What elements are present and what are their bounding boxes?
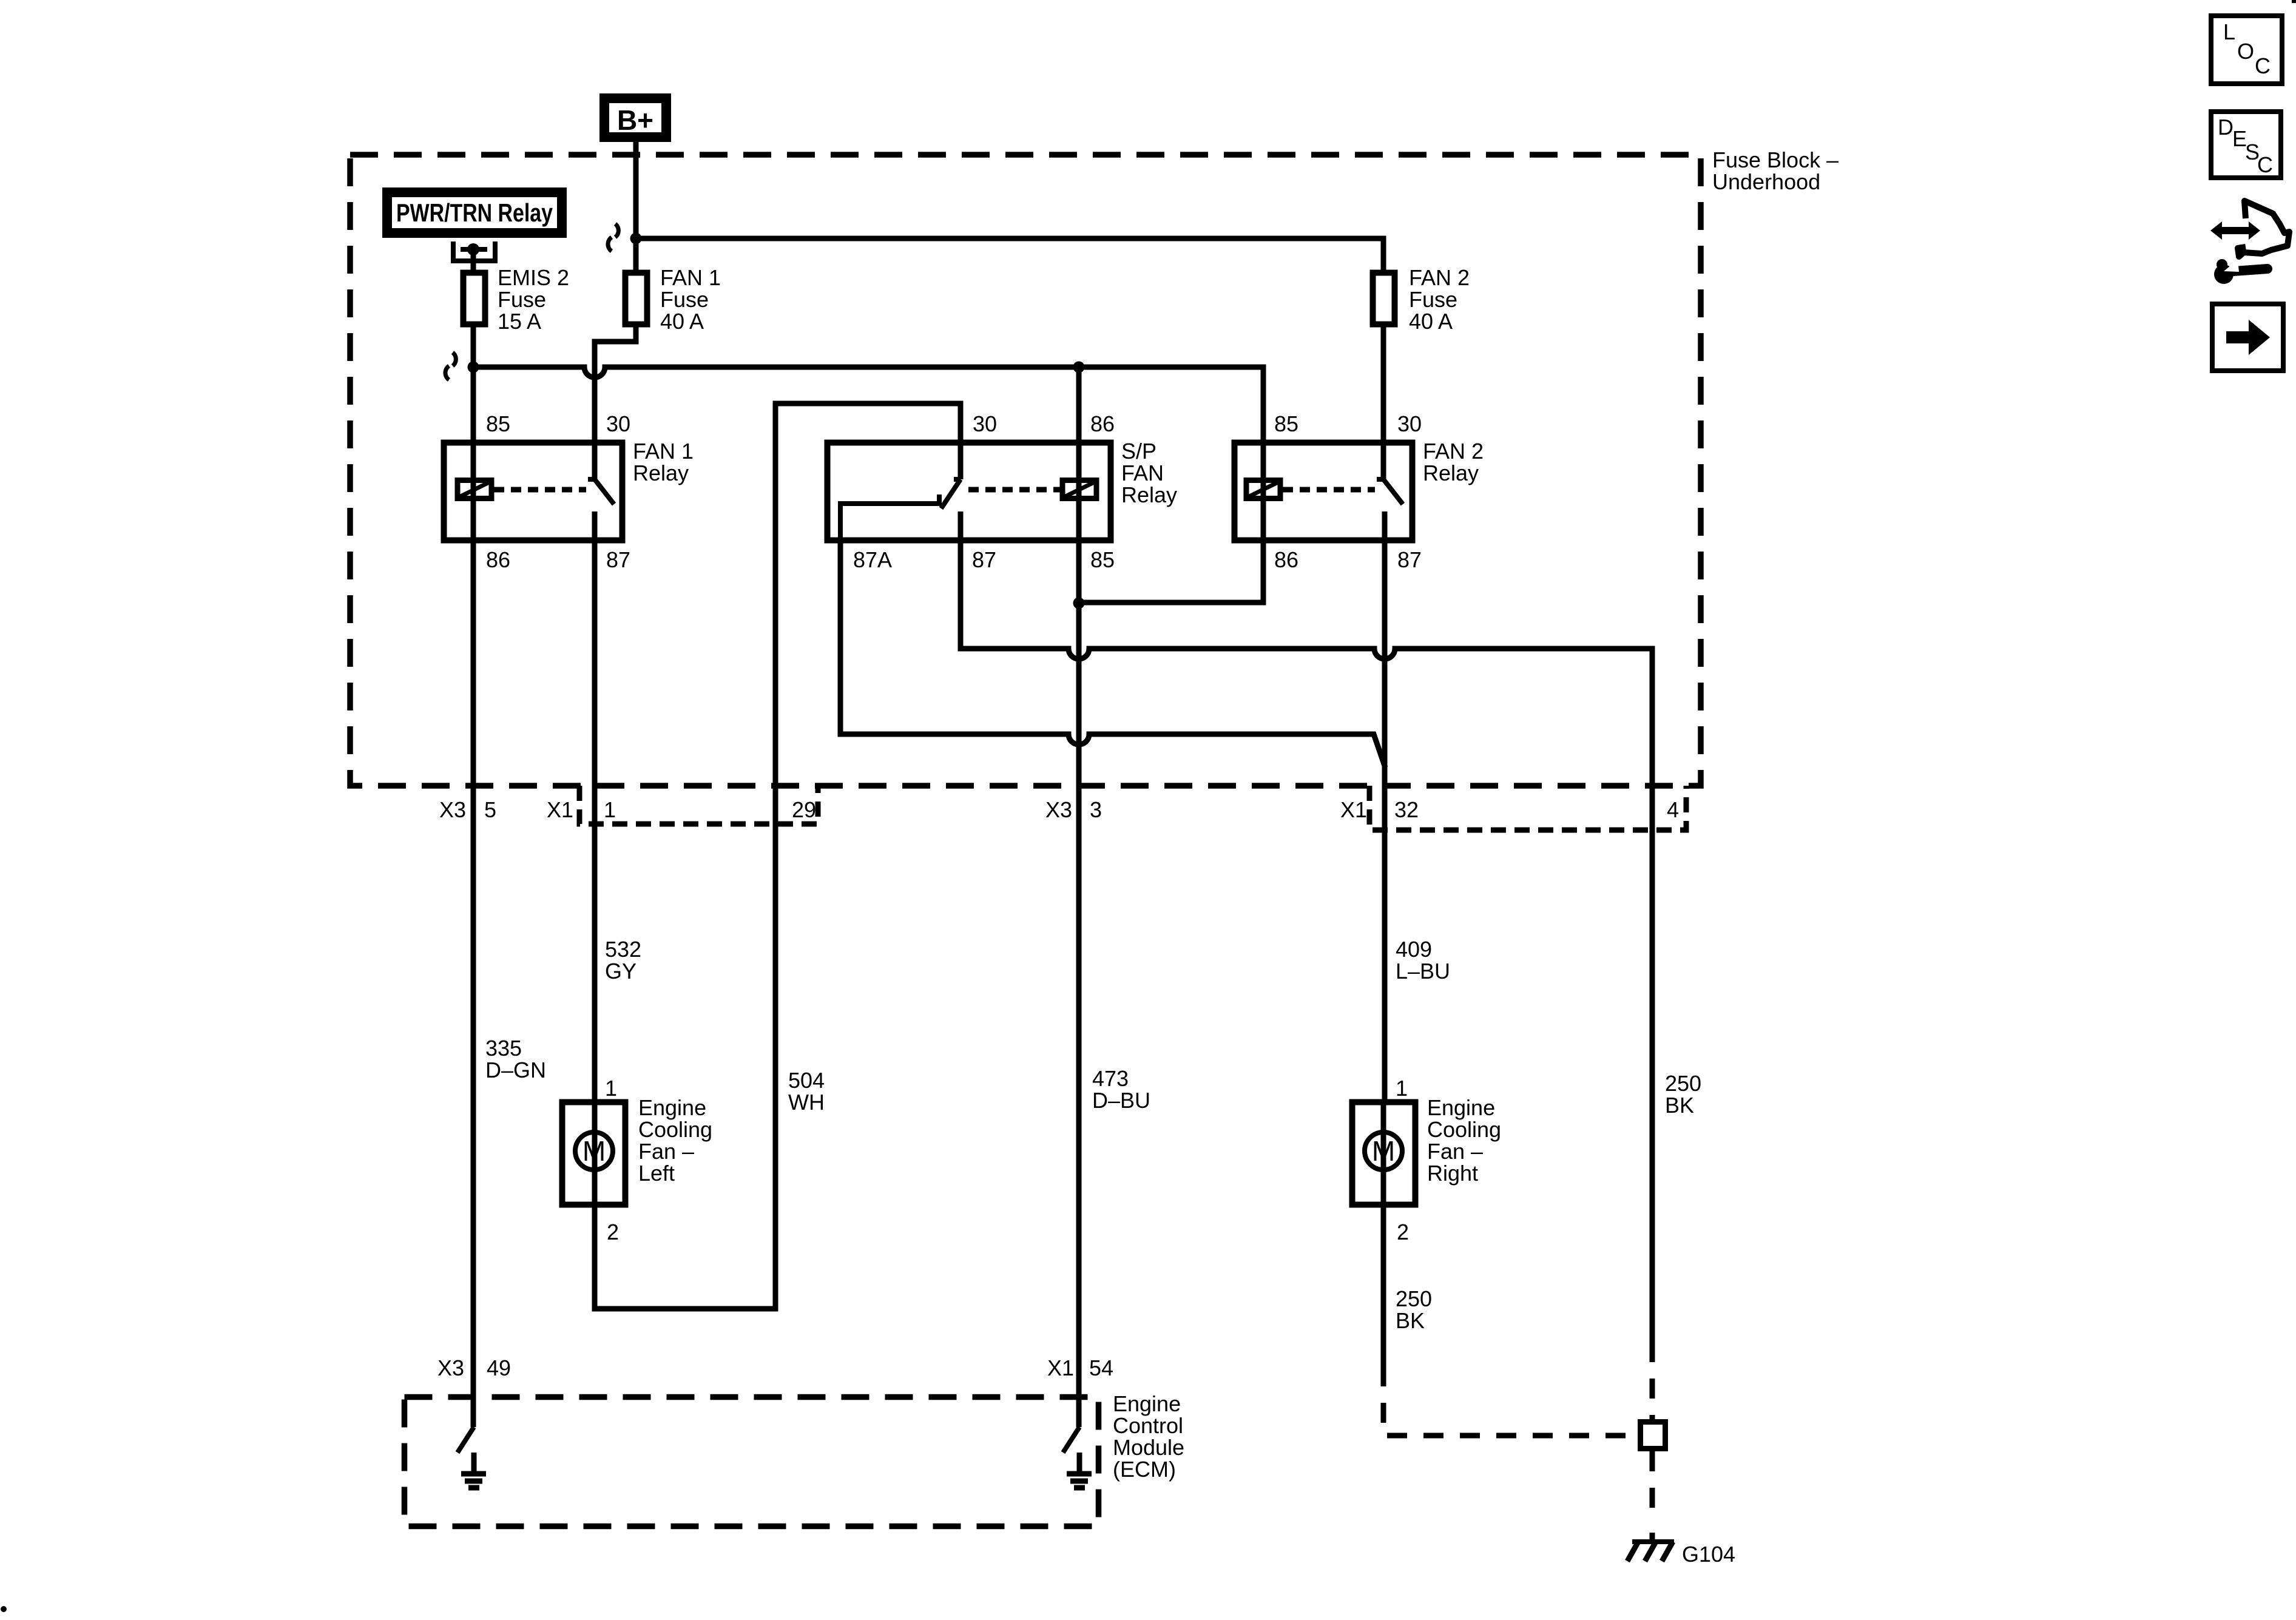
- ground G104 symbol: [1627, 1542, 1674, 1561]
- svg-text:532: 532: [605, 937, 641, 962]
- svg-text:FAN 2: FAN 2: [1409, 265, 1470, 290]
- connector repair icon housing outline: [2238, 201, 2289, 257]
- S/P FAN relay coil-switch link: [968, 487, 1060, 493]
- splice symbol at relay supply bus: [445, 353, 456, 380]
- ECM internal switch blade (X1-54): [1063, 1427, 1079, 1453]
- page artifact dot: [1, 1606, 7, 1612]
- svg-text:85: 85: [1274, 411, 1298, 436]
- svg-text:409: 409: [1396, 937, 1432, 962]
- svg-text:1: 1: [1396, 1076, 1408, 1101]
- svg-text:X1: X1: [547, 797, 573, 822]
- svg-text:30: 30: [973, 411, 997, 436]
- DESC navigation icon: [2211, 112, 2281, 178]
- junction dot B+ bus: [630, 233, 642, 245]
- ECM dashed border (Engine Control Module): [405, 1397, 1099, 1527]
- junction dot S/P FAN relay pin 85: [1073, 598, 1085, 609]
- wire X1-4 250 BK dashed continuation: [1650, 1342, 1655, 1422]
- svg-text:L–BU: L–BU: [1396, 959, 1450, 984]
- left fan motor internal wire: [592, 1099, 598, 1207]
- svg-text:86: 86: [1274, 547, 1298, 572]
- svg-text:B+: B+: [617, 104, 653, 136]
- relay S/P FAN box: [828, 443, 1111, 541]
- wire PWR/TRN terminal to EMIS 2 fuse: [471, 249, 476, 272]
- svg-text:87: 87: [1397, 547, 1422, 572]
- svg-text:2: 2: [607, 1220, 619, 1244]
- svg-text:Left: Left: [638, 1161, 675, 1186]
- connector repair icon wrench: [2214, 259, 2267, 284]
- svg-text:FAN 1: FAN 1: [660, 265, 721, 290]
- junction dot EMIS 2 fuse to bus: [468, 362, 479, 373]
- svg-text:L: L: [2223, 19, 2235, 44]
- svg-text:Relay: Relay: [633, 461, 689, 485]
- svg-text:Right: Right: [1427, 1161, 1478, 1186]
- fuse FAN 1 40 A: [626, 273, 647, 325]
- fuse FAN 2 40 A: [1373, 273, 1395, 325]
- svg-text:30: 30: [606, 411, 630, 436]
- svg-text:Engine: Engine: [638, 1095, 706, 1120]
- svg-text:X1: X1: [1340, 797, 1367, 822]
- svg-text:Fan –: Fan –: [1427, 1139, 1483, 1164]
- svg-text:O: O: [2237, 39, 2254, 64]
- wire right fan motor pin 2 (circuit 250 BK) solid part: [1381, 1207, 1386, 1366]
- svg-text:X1: X1: [1047, 1355, 1074, 1380]
- relay FAN 2 box: [1235, 443, 1413, 541]
- fuse EMIS 2 15 A: [464, 273, 485, 325]
- wire FAN 2 relay pin 85 coil feed: [1261, 443, 1266, 540]
- svg-text:40 A: 40 A: [1409, 309, 1453, 334]
- svg-text:335: 335: [485, 1036, 522, 1061]
- svg-text:Fan –: Fan –: [638, 1139, 694, 1164]
- svg-text:BK: BK: [1665, 1093, 1694, 1118]
- svg-text:32: 32: [1394, 797, 1419, 822]
- right fan motor internal wire: [1381, 1099, 1386, 1207]
- svg-text:5: 5: [484, 797, 496, 822]
- svg-text:86: 86: [486, 547, 510, 572]
- svg-text:FAN 1: FAN 1: [633, 439, 694, 464]
- svg-text:BK: BK: [1396, 1308, 1425, 1333]
- S/P FAN relay coil: [1062, 481, 1096, 499]
- svg-text:1: 1: [605, 1076, 617, 1101]
- svg-text:Relay: Relay: [1423, 461, 1479, 485]
- svg-text:S/P: S/P: [1121, 439, 1156, 464]
- svg-text:2: 2: [1397, 1220, 1409, 1244]
- S/P FAN relay 87A contact arm: [840, 494, 939, 540]
- svg-text:Fuse Block –: Fuse Block –: [1712, 147, 1838, 172]
- svg-text:30: 30: [1397, 411, 1422, 436]
- PWR/TRN Relay label box: [387, 192, 562, 233]
- svg-text:87A: 87A: [853, 547, 892, 572]
- svg-text:G104: G104: [1682, 1542, 1735, 1567]
- svg-text:X3: X3: [437, 1355, 464, 1380]
- wire FAN 2 relay pin 87 to right fan motor pin 1 (circuit 409 L-BU): [1382, 511, 1388, 1099]
- svg-text:87: 87: [972, 547, 996, 572]
- svg-text:WH: WH: [788, 1090, 825, 1115]
- svg-text:504: 504: [788, 1068, 825, 1093]
- wire S/P FAN relay pin 85 to FAN 2 relay pin 86: [1079, 540, 1263, 602]
- svg-text:Relay: Relay: [1121, 482, 1177, 507]
- junction dot PWR/TRN terminal: [467, 243, 479, 255]
- svg-text:Cooling: Cooling: [1427, 1117, 1501, 1142]
- wire right fan motor 250 BK dashed continuation: [1383, 1366, 1638, 1436]
- relay FAN 1 box: [444, 443, 623, 541]
- PWR/TRN relay output terminal bracket: [453, 241, 495, 261]
- S/P FAN relay switch contact tick: [954, 477, 961, 482]
- svg-text:D–BU: D–BU: [1092, 1088, 1150, 1113]
- svg-text:250: 250: [1396, 1286, 1432, 1311]
- svg-text:Control: Control: [1113, 1413, 1183, 1438]
- svg-text:Engine: Engine: [1427, 1095, 1495, 1120]
- FAN 1 relay coil: [458, 481, 491, 499]
- svg-text:D: D: [2218, 115, 2234, 140]
- connector repair icon double arrow: [2210, 221, 2260, 240]
- wire S/P FAN relay pin 30 to X1-29 and left fan motor pin 2 (circuit 504 WH): [595, 403, 961, 1309]
- svg-text:4: 4: [1667, 797, 1679, 822]
- fuse block dashed border (Fuse Block - Underhood): [350, 155, 1701, 786]
- svg-text:FAN: FAN: [1121, 461, 1164, 485]
- svg-text:87: 87: [606, 547, 630, 572]
- FAN 1 relay switch blade: [595, 479, 614, 504]
- junction dot S/P FAN relay coil feed: [1073, 362, 1085, 373]
- wire B+ feed bus to FAN 2 fuse: [636, 238, 1383, 272]
- svg-text:C: C: [2255, 53, 2271, 78]
- wire FAN 2 fuse to FAN 2 relay pin 30: [1381, 327, 1386, 479]
- svg-text:54: 54: [1089, 1355, 1113, 1380]
- connector X1 pins 1 / 29 dashed box: [579, 786, 818, 824]
- svg-text:Fuse: Fuse: [1409, 287, 1457, 312]
- in-line connector to ground: [1641, 1422, 1666, 1449]
- svg-text:Underhood: Underhood: [1712, 169, 1820, 194]
- svg-text:FAN 2: FAN 2: [1423, 439, 1484, 464]
- svg-text:29: 29: [792, 797, 816, 822]
- svg-text:EMIS 2: EMIS 2: [498, 265, 569, 290]
- svg-text:(ECM): (ECM): [1113, 1457, 1176, 1482]
- svg-text:Cooling: Cooling: [638, 1117, 712, 1142]
- wire S/P FAN relay pin 87A to right fan feed: [840, 540, 1385, 768]
- wire S/P FAN relay pins 86-85 to ECM (circuit 473 D-BU): [1076, 367, 1082, 1427]
- page artifact corner nib: [2292, 0, 2296, 3]
- svg-text:Fuse: Fuse: [498, 287, 546, 312]
- ECM internal ground (X3-49): [461, 1453, 486, 1488]
- svg-text:Fuse: Fuse: [660, 287, 709, 312]
- forward navigation arrow icon: [2212, 304, 2283, 371]
- svg-text:GY: GY: [605, 959, 636, 984]
- svg-text:85: 85: [1090, 547, 1115, 572]
- left fan motor (Engine Cooling Fan - Left): [562, 1102, 626, 1205]
- FAN 1 relay switch contact tick: [588, 477, 595, 482]
- wire FAN 1 fuse to FAN 1 relay pin 30: [595, 327, 636, 479]
- power feed B+ terminal: [604, 98, 666, 137]
- svg-text:473: 473: [1092, 1066, 1129, 1091]
- connector X1 pins 32 / 4 dashed box: [1369, 786, 1686, 830]
- ECM internal switch blade (X3-49): [458, 1427, 474, 1453]
- FAN 1 relay coil-switch link: [494, 487, 586, 493]
- FAN 2 relay switch blade: [1383, 479, 1403, 504]
- svg-text:86: 86: [1090, 411, 1115, 436]
- svg-text:3: 3: [1090, 797, 1102, 822]
- svg-text:Engine: Engine: [1113, 1391, 1181, 1416]
- wire B+ to FAN 1 fuse: [633, 142, 639, 272]
- svg-text:15 A: 15 A: [498, 309, 541, 334]
- LOC navigation icon: [2211, 16, 2282, 84]
- wire S/P FAN relay pin 87 to ground bus (circuit 250 BK): [961, 511, 1652, 1342]
- svg-text:C: C: [2257, 152, 2273, 177]
- svg-text:85: 85: [486, 411, 510, 436]
- svg-text:Module: Module: [1113, 1435, 1184, 1460]
- svg-text:X3: X3: [1045, 797, 1072, 822]
- svg-text:PWR/TRN Relay: PWR/TRN Relay: [396, 198, 553, 227]
- FAN 2 relay coil-switch link: [1283, 487, 1375, 493]
- FAN 2 relay switch contact tick: [1377, 477, 1383, 482]
- svg-text:1: 1: [604, 797, 616, 822]
- svg-text:40 A: 40 A: [660, 309, 704, 334]
- FAN 2 relay coil: [1246, 481, 1280, 499]
- svg-text:49: 49: [487, 1355, 511, 1380]
- ECM internal ground (X1-54): [1067, 1453, 1092, 1488]
- wire relay supply bus to FAN 2 relay pin 85: [473, 367, 1263, 443]
- S/P FAN relay switch blade: [941, 479, 961, 508]
- dashed wire connector to G104: [1650, 1451, 1655, 1523]
- svg-text:D–GN: D–GN: [485, 1058, 546, 1082]
- svg-text:X3: X3: [439, 797, 466, 822]
- wire EMIS 2 fuse / FAN 1 relay pins 85-86 to ECM: [471, 327, 476, 1427]
- wire FAN 1 relay pin 87 to left fan motor pin 1 (circuit 532 GY): [592, 511, 598, 1099]
- splice symbol at B+ bus: [608, 224, 618, 251]
- svg-text:250: 250: [1665, 1071, 1701, 1096]
- right fan motor (Engine Cooling Fan - Right): [1352, 1102, 1416, 1205]
